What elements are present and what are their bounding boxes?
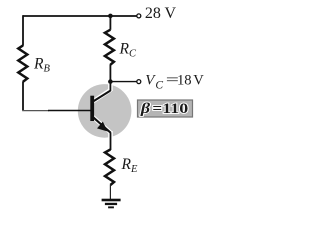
svg-text:VC=18V: VC=18V xyxy=(145,73,204,92)
wire collector vertical white casing xyxy=(108,84,113,92)
wire top rail xyxy=(23,15,137,17)
wire left branch lower xyxy=(22,81,24,110)
label beta box xyxy=(138,100,193,117)
svg-text:RB: RB xyxy=(33,55,50,74)
terminal 28 V xyxy=(137,14,141,18)
resistor RC xyxy=(105,30,114,65)
wire emitter diagonal white casing xyxy=(93,117,111,133)
wire collector vertical (top junction down to RC) xyxy=(109,16,111,30)
wire emitter vertical white casing xyxy=(108,131,113,138)
svg-text:RC: RC xyxy=(119,41,137,60)
transistor Q1 collector diagonal xyxy=(93,91,111,102)
svg-text:RE: RE xyxy=(121,156,138,175)
wire base lead xyxy=(48,110,91,112)
resistor RE xyxy=(105,150,114,186)
svg-text:28V: 28V xyxy=(145,5,177,22)
transistor Q1 emitter diagonal xyxy=(93,117,110,132)
transistor Q1 body circle xyxy=(78,84,132,138)
resistor RB xyxy=(18,45,27,81)
wire collector diagonal white casing xyxy=(93,90,111,102)
wire left branch upper xyxy=(22,15,24,46)
wire VC tap xyxy=(110,81,136,83)
transistor Q1 base bar xyxy=(90,96,94,121)
terminal VC xyxy=(137,80,141,84)
svg-text:β=110: β=110 xyxy=(140,101,189,117)
node junction VC xyxy=(108,79,113,84)
wire emitter vertical xyxy=(110,132,112,150)
transistor Q1 emitter arrow xyxy=(98,123,107,131)
wire RE to ground xyxy=(109,185,111,200)
wire base lead (left faint segment) xyxy=(22,110,49,112)
wire RC to VC node xyxy=(109,64,111,91)
ground xyxy=(102,199,121,209)
node junction top rail xyxy=(108,14,113,19)
